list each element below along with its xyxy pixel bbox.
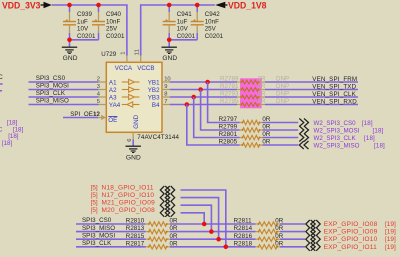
svg-text:VCCA: VCCA (115, 65, 133, 72)
svg-text:10nF: 10nF (106, 18, 120, 25)
junction dots on rails (67, 3, 72, 8)
svg-text:0R: 0R (262, 131, 270, 138)
port EXP_GPIO_IO09 (306, 228, 310, 236)
svg-text:[5]: [5] (91, 207, 98, 214)
svg-text:DNP: DNP (276, 91, 289, 98)
svg-text:0R: 0R (258, 98, 266, 105)
svg-text:0R: 0R (262, 116, 270, 123)
pin 11 VCCB lead (140, 56, 142, 63)
port EXP_GPIO_IO08 (306, 220, 310, 228)
svg-text:SPI3_MISO: SPI3_MISO (82, 225, 115, 232)
svg-text:VEN_SPI_CLK: VEN_SPI_CLK (312, 91, 356, 98)
pin 5 lead left (99, 104, 107, 106)
svg-text:25V: 25V (106, 26, 118, 33)
cut wire stub (0, 90, 2, 92)
svg-text:GND: GND (162, 55, 177, 62)
wire M20_GPIO_IO08 down to expander row (181, 213, 205, 224)
power port VDD_1V8 (215, 2, 225, 9)
junction (205, 80, 210, 85)
svg-text:25V: 25V (205, 26, 217, 33)
pin 12 OE lead with input arrow (98, 117, 103, 119)
svg-text:N18_GPIO_IO11: N18_GPIO_IO11 (102, 184, 154, 191)
port W2_SPI3_MOSI (299, 126, 304, 134)
port W2_SPI3_CLK (299, 134, 304, 142)
wire net SPI3_CS0 (29, 81, 99, 83)
svg-text:B4: B4 (152, 102, 160, 109)
svg-text:R2813: R2813 (126, 225, 145, 232)
svg-text:[5]: [5] (91, 200, 98, 207)
svg-text:7: 7 (164, 99, 167, 105)
svg-text:0R: 0R (258, 76, 266, 83)
svg-text:0R: 0R (262, 139, 270, 146)
svg-text:VDD_1V8: VDD_1V8 (228, 0, 267, 11)
svg-text:EXP_GPIO_IO08: EXP_GPIO_IO08 (324, 221, 378, 228)
junction (202, 222, 207, 227)
wire N17_GPIO_IO10 down to expander row (181, 198, 219, 240)
svg-text:SPI3_MISO: SPI3_MISO (36, 98, 69, 105)
pin 3 lead left (99, 89, 107, 91)
svg-text:R2816: R2816 (234, 233, 253, 240)
svg-text:0R: 0R (170, 240, 178, 247)
svg-text:10V: 10V (77, 26, 89, 33)
svg-text:R2799: R2799 (219, 124, 238, 131)
svg-text:SPI3_CS0: SPI3_CS0 (36, 75, 66, 82)
ground GND under C941 (168, 40, 170, 47)
wire pin6 to ground (132, 140, 134, 147)
svg-text:10V: 10V (177, 26, 189, 33)
pin 1 VCCA lead (126, 56, 128, 63)
svg-text:C0201: C0201 (177, 33, 196, 40)
capacitor C942 (196, 5, 198, 12)
junction (216, 237, 221, 242)
svg-text:[19]: [19] (385, 229, 396, 236)
capacitor C941 (168, 5, 170, 12)
svg-text:[18]: [18] (373, 127, 384, 134)
svg-text:R2805: R2805 (219, 139, 238, 146)
svg-text:74AVC4T3144: 74AVC4T3144 (137, 134, 179, 141)
wire cap bottoms group1 (70, 39, 99, 41)
svg-text:0R: 0R (170, 225, 178, 232)
svg-text:VDD_3V3: VDD_3V3 (2, 0, 41, 11)
pin 8 lead right (162, 96, 170, 98)
wire net SPI3_MOSI expander row (76, 238, 146, 240)
svg-text:YB3: YB3 (148, 94, 160, 101)
svg-text:[19]: [19] (385, 244, 396, 251)
wire net SPI3_CS0 expander row (76, 223, 146, 225)
wire pin 10 branch down (208, 82, 240, 123)
svg-text:C941: C941 (177, 11, 193, 18)
svg-text:GND: GND (133, 114, 140, 128)
junction (224, 245, 229, 250)
svg-text:C942: C942 (205, 11, 221, 18)
svg-text:DNP: DNP (276, 98, 289, 105)
svg-text:U729: U729 (101, 51, 117, 58)
svg-text:[18]: [18] (374, 142, 385, 149)
svg-text:R2810: R2810 (126, 218, 145, 225)
svg-text:0R: 0R (275, 225, 283, 232)
wire net SPI3_CLK (29, 96, 99, 98)
wire pin 9 to VEN net (170, 89, 237, 91)
pin 10 lead right (162, 81, 170, 83)
svg-text:DNP: DNP (276, 83, 289, 90)
wire VDD_3V3 rail (52, 5, 127, 56)
svg-text:[18]: [18] (7, 119, 18, 126)
wire pin 7 to VEN net (170, 104, 237, 106)
ground GND under C939 (69, 40, 71, 47)
wire pin 9 branch down (201, 90, 240, 131)
buffer direction symbol (122, 104, 127, 106)
svg-text:VCCB: VCCB (137, 65, 154, 72)
wire net SPI3_MISO expander row (76, 231, 146, 233)
IC U729 74AVC4T3144 level shifter body (106, 62, 162, 132)
port EXP_GPIO_IO11 (306, 243, 310, 251)
svg-text:1uF: 1uF (177, 18, 188, 25)
svg-text:R2793: R2793 (220, 91, 239, 98)
svg-text:M20_GPIO_IO08: M20_GPIO_IO08 (102, 207, 156, 214)
svg-text:SPI3_CLK: SPI3_CLK (36, 90, 66, 97)
svg-text:YA4: YA4 (109, 102, 121, 109)
svg-text:[18]: [18] (2, 140, 13, 147)
port EXP_GPIO_IO10 (306, 235, 310, 243)
ground GND under U729 (126, 145, 141, 147)
pin 2 lead left (99, 81, 107, 83)
svg-text:W2_SPI3_CS0: W2_SPI3_CS0 (314, 120, 357, 127)
svg-text:0R: 0R (262, 124, 270, 131)
svg-text:R2789: R2789 (220, 76, 239, 83)
svg-text:[19]: [19] (385, 236, 396, 243)
svg-text:R2818: R2818 (234, 240, 253, 247)
svg-text:R2801: R2801 (219, 131, 238, 138)
port W2_SPI3_MISO (299, 141, 304, 149)
svg-text:YB1: YB1 (148, 79, 160, 86)
svg-text:SPI3_CS0: SPI3_CS0 (82, 217, 112, 224)
svg-text:0R: 0R (170, 218, 178, 225)
svg-text:C940: C940 (106, 11, 122, 18)
svg-text:VEN_SPI_FRM: VEN_SPI_FRM (312, 76, 357, 83)
wire N18_GPIO_IO11 down to expander row (181, 190, 226, 247)
svg-text:R2797: R2797 (219, 116, 238, 123)
svg-text:R2814: R2814 (234, 225, 253, 232)
svg-text:GND: GND (126, 154, 141, 161)
svg-text:[5]: [5] (91, 192, 98, 199)
svg-text:VEN_SPI_TXD: VEN_SPI_TXD (312, 83, 356, 90)
svg-text:11: 11 (134, 49, 140, 55)
svg-text:M21_GPIO_IO09: M21_GPIO_IO09 (102, 200, 156, 207)
wire M21_GPIO_IO09 down to expander row (181, 205, 212, 231)
svg-text:9: 9 (164, 84, 167, 90)
wire cap bottoms group2 (169, 39, 197, 41)
wire net SPI3_MISO (29, 104, 99, 106)
wire pin 7 branch down (187, 105, 240, 146)
svg-text:DNP: DNP (276, 76, 289, 83)
svg-text:N17_GPIO_IO10: N17_GPIO_IO10 (102, 192, 155, 199)
pin 9 lead right (162, 89, 170, 91)
svg-text:A1: A1 (109, 79, 117, 86)
svg-text:R2815: R2815 (126, 233, 145, 240)
svg-text:EXP_GPIO_IO10: EXP_GPIO_IO10 (324, 236, 378, 243)
svg-text:[18]: [18] (364, 135, 375, 142)
pin 7 lead right (162, 104, 170, 106)
svg-text:R2791: R2791 (220, 83, 239, 90)
svg-text:0R: 0R (258, 91, 266, 98)
svg-text:10: 10 (164, 77, 170, 83)
buffer direction symbol (122, 81, 129, 83)
svg-text:SPI3_MOSI: SPI3_MOSI (36, 83, 69, 90)
svg-text:A3: A3 (109, 94, 117, 101)
wire pin 8 branch down (194, 97, 240, 138)
svg-text:0R: 0R (275, 233, 283, 240)
wire pin 8 to VEN net (170, 96, 237, 98)
svg-text:0R: 0R (258, 83, 266, 90)
svg-text:C939: C939 (77, 11, 93, 18)
svg-text:W2_SPI3_MOSI: W2_SPI3_MOSI (314, 127, 360, 134)
svg-text:C0201: C0201 (77, 33, 96, 40)
svg-text:10nF: 10nF (205, 18, 219, 25)
DNP highlight block (240, 78, 262, 108)
buffer direction symbol (122, 96, 129, 98)
svg-text:EXP_GPIO_IO11: EXP_GPIO_IO11 (324, 244, 377, 251)
pin 6 GND lead bottom (132, 132, 134, 139)
svg-text:0R: 0R (275, 240, 283, 247)
wire VDD_1V8 rail (141, 5, 215, 56)
svg-text:GND: GND (63, 55, 78, 62)
svg-text:1uF: 1uF (77, 18, 88, 25)
svg-text:0R: 0R (275, 218, 283, 225)
svg-text:8: 8 (164, 92, 167, 98)
svg-text:C: C (0, 74, 3, 81)
svg-text:1: 1 (121, 52, 127, 55)
svg-text:R2811: R2811 (234, 218, 253, 225)
svg-text:YB2: YB2 (148, 87, 160, 94)
junction (191, 95, 196, 100)
svg-text:0R: 0R (170, 233, 178, 240)
junction (209, 229, 214, 234)
svg-text:R2817: R2817 (126, 240, 145, 247)
svg-text:C0201: C0201 (205, 33, 224, 40)
svg-text:A2: A2 (109, 87, 117, 94)
wire net SPI3_MOSI (29, 89, 99, 91)
svg-text:SPI3_CLK: SPI3_CLK (82, 240, 112, 247)
pin 4 lead left (99, 96, 107, 98)
svg-text:R2795: R2795 (220, 98, 239, 105)
junction (185, 102, 190, 107)
svg-text:[5]: [5] (91, 184, 98, 191)
svg-text:EXP_GPIO_IO09: EXP_GPIO_IO09 (324, 229, 378, 236)
capacitor C940 (98, 5, 100, 12)
svg-text:W2_SPI3_MISO: W2_SPI3_MISO (314, 142, 360, 149)
svg-text:[18]: [18] (362, 120, 373, 127)
svg-text:C0201: C0201 (106, 33, 125, 40)
svg-text:OE: OE (108, 117, 117, 124)
wire pin 10 to VEN net (170, 81, 237, 83)
svg-text:SPI3_MOSI: SPI3_MOSI (82, 232, 115, 239)
svg-text:[19]: [19] (385, 221, 396, 228)
junction (198, 87, 203, 92)
port W2_SPI3_CS0 (299, 119, 304, 127)
wire net SPI3_CLK expander row (76, 246, 146, 248)
wire SPI_OE12 (63, 117, 98, 119)
svg-text:W2_SPI3_CLK: W2_SPI3_CLK (314, 135, 357, 142)
buffer direction symbol (122, 89, 129, 91)
capacitor C939 (69, 5, 71, 12)
cut wire stub (0, 83, 3, 85)
svg-text:VEN_SPI_RXD: VEN_SPI_RXD (312, 98, 357, 105)
svg-text:6: 6 (127, 139, 133, 142)
